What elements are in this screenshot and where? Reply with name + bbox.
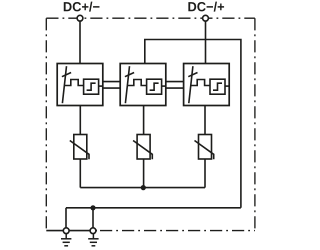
wire F2 top over to right side down to lower bus: [145, 40, 241, 208]
wire drop to earth terminal 1: [65, 208, 67, 228]
wire lower earth bus: [66, 207, 241, 209]
linkage double line F1-F2: [103, 82, 120, 89]
wire ground-bus solid part of bottom border through earth terminals: [46, 230, 97, 232]
wire F1 bottom to R1: [79, 106, 81, 135]
wire F3 bottom to R3: [204, 106, 206, 135]
earth terminal 2: [90, 228, 96, 234]
wire R1 bottom to bus: [79, 159, 81, 188]
varistor R2: [133, 135, 152, 160]
wire DC- terminal to F3 top: [205, 18, 207, 63]
terminal X1 DC+/-: [77, 15, 83, 21]
terminal X2 DC-/+: [203, 15, 209, 21]
wire R2 bottom to bus: [143, 159, 145, 188]
earth terminal 1: [63, 228, 69, 234]
wire DC+ terminal to F1 top: [79, 18, 81, 63]
junction dot on bus at R2: [141, 185, 146, 190]
spark gap F1: [57, 64, 103, 106]
varistor R3: [195, 135, 214, 160]
ground symbol 2: [88, 234, 98, 246]
varistor R1: [70, 135, 89, 160]
spark gap F3: [184, 64, 230, 106]
linkage double line F2-F3: [166, 82, 184, 89]
wire varistor common bus: [80, 187, 205, 189]
junction dot on lower earth bus: [90, 205, 95, 210]
enclosure border (dash-dot device outline): [46, 18, 255, 230]
label DC+/-: [64, 2, 100, 12]
spark gap F2: [120, 64, 166, 106]
ground symbol 1: [61, 234, 71, 246]
label DC-/+: [188, 2, 224, 12]
wire R3 bottom to bus: [204, 159, 206, 188]
wire drop to earth terminal 2: [92, 208, 94, 228]
wire F2 bottom to R2: [143, 106, 145, 135]
